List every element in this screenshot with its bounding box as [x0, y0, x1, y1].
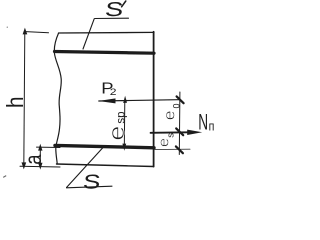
svg-text:S: S [104, 0, 125, 21]
svg-text:e: e [106, 126, 130, 141]
svg-text:h: h [2, 96, 28, 108]
svg-text:N: N [198, 109, 208, 134]
svg-text:a: a [21, 154, 47, 165]
svg-text:e: e [156, 138, 172, 147]
svg-text:S: S [82, 170, 102, 191]
svg-text:п: п [209, 118, 214, 133]
svg-text:s: s [166, 133, 177, 138]
svg-text:e: e [160, 111, 178, 121]
svg-text:0: 0 [172, 103, 182, 108]
svg-text:2: 2 [110, 87, 117, 97]
svg-text:sp: sp [116, 111, 128, 123]
